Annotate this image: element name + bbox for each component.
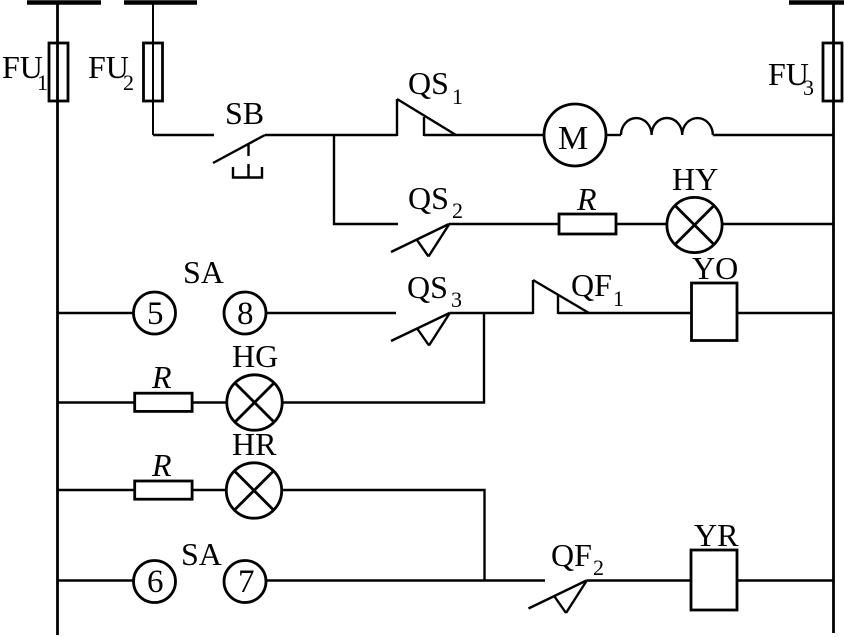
label QS3 [407,269,462,312]
breaker QF1 [533,280,589,314]
svg-text:2: 2 [452,198,463,223]
resistor R row5 [58,489,135,491]
wire YR to right bus [737,579,834,581]
label R row5 [151,447,172,483]
svg-text:QS: QS [408,180,449,216]
svg-text:HY: HY [672,161,718,197]
wire row6 from left bus [58,579,134,581]
bus bar L2 [124,0,197,5]
label SA top [183,254,224,290]
wire QS2 to resistor [449,223,559,225]
wire inductor to right bus [713,134,834,136]
label FU3 [768,56,814,100]
svg-text:SA: SA [183,254,224,290]
wire resistor to HR [192,489,226,491]
svg-text:HG: HG [232,338,278,374]
wire HY to right bus [722,223,833,225]
svg-text:1: 1 [452,84,463,109]
lamp HY [667,197,722,252]
wire row3 from left bus [58,312,134,314]
fuse FU1 [49,43,68,101]
wire FU2 to SB [153,134,214,136]
wire resistor to HG [192,401,227,403]
wire HR to bottom row junction [282,490,485,581]
svg-text:3: 3 [803,75,814,100]
svg-text:3: 3 [451,287,462,312]
label QS1 [408,65,463,109]
svg-text:8: 8 [237,296,254,332]
svg-text:2: 2 [123,70,134,95]
wire SB to QS1 [265,134,397,136]
svg-text:M: M [558,120,588,157]
label SA bottom [181,536,222,572]
wire motor to inductor [606,134,621,136]
svg-text:QF: QF [551,537,592,573]
lamp HR [226,463,281,518]
wire resistor to HY [616,223,667,225]
svg-text:QF: QF [571,267,612,303]
wire right bus vertical [832,3,835,633]
fuse FU2 [144,43,163,101]
svg-text:2: 2 [593,555,604,580]
knife switch QS1 [397,99,456,136]
bus bar L3 [789,0,844,5]
solenoid YR [691,550,737,610]
svg-text:R: R [151,447,172,483]
SA contact 7 [224,561,266,603]
svg-text:R: R [151,359,172,395]
label QF1 [571,267,624,311]
svg-text:HR: HR [232,426,277,462]
fuse FU3 [823,43,842,101]
wire left bus vertical [56,3,59,635]
label R row4 [151,359,172,395]
label HY [672,161,718,197]
resistor R row4 [58,401,135,403]
pushbutton SB [213,135,265,178]
label HG [232,338,278,374]
svg-text:5: 5 [147,296,164,332]
svg-text:R: R [576,181,597,217]
label QF2 [551,537,604,580]
lamp HG [227,375,282,430]
label FU1 [2,49,48,95]
svg-text:6: 6 [147,564,164,600]
svg-text:1: 1 [613,286,624,311]
svg-text:SB: SB [225,95,264,131]
label FU2 [88,49,134,95]
inductor L [621,118,713,135]
switch QS3 [391,313,450,346]
resistor R row2 [559,214,616,234]
motor M [544,104,606,166]
breaker QF2 [529,581,587,614]
wire FU2 branch vertical [152,3,154,135]
svg-text:YO: YO [692,250,738,286]
svg-text:YR: YR [694,517,739,553]
svg-text:QS: QS [408,65,449,101]
wire QS3 to QF1 [450,312,534,314]
label YO [692,250,738,286]
wire YO to right bus [737,312,834,314]
svg-text:SA: SA [181,536,222,572]
wire contact 8 to QS3 [266,312,396,314]
bus bar L1 [27,0,101,5]
wire contact 7 to QF2 [266,579,545,581]
label M [558,120,588,157]
wire QS1 to motor [424,134,544,136]
svg-text:QS: QS [407,269,448,305]
wire QF2 to YR [587,579,692,581]
label SB [225,95,264,131]
svg-text:1: 1 [37,70,48,95]
SA contact 5 [134,292,176,334]
wire junction drop to HG row [282,313,484,403]
wire QF1 to YO [558,312,692,314]
switch QS2 [391,224,449,257]
SA contact 8 [224,292,266,334]
wire SB row drop to QS2 row [334,135,398,224]
label QS2 [408,180,463,223]
label R row2 [576,181,597,217]
solenoid YO [692,283,738,341]
label YR [694,517,739,553]
label HR [232,426,277,462]
SA contact 6 [134,561,176,603]
svg-text:7: 7 [238,564,255,600]
